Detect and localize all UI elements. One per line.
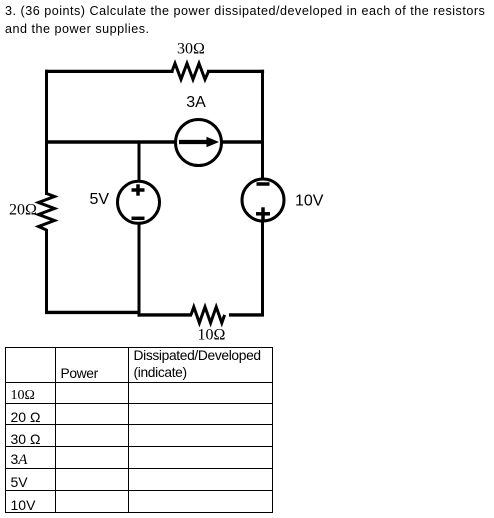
wire top rail left segment	[45, 70, 174, 73]
voltage source 5V (plus top, minus bottom)	[118, 181, 160, 223]
label 20ohm	[9, 202, 37, 219]
wire middle branch lower	[138, 222, 141, 317]
wire top rail right segment	[207, 70, 264, 73]
wire left rail lower	[45, 229, 48, 314]
resistor R 30ohm zigzag	[172, 63, 209, 79]
problem title text	[5, 2, 485, 38]
wire bottom rail left segment	[45, 311, 141, 314]
label 3A	[186, 94, 206, 111]
svg-text:10Ω: 10Ω	[198, 327, 226, 344]
svg-text:20Ω: 20Ω	[9, 202, 37, 219]
results table	[5, 347, 273, 513]
wire left rail upper	[45, 70, 48, 195]
wire middle rail right segment	[220, 140, 264, 144]
wire middle branch upper	[138, 141, 141, 183]
voltage source 10V (minus top, plus bottom)	[242, 179, 284, 221]
label 5V	[90, 191, 110, 208]
resistor 10ohm zigzag	[191, 307, 225, 323]
wire bottom rail right segment	[229, 313, 264, 316]
svg-text:10V: 10V	[295, 192, 324, 209]
svg-text:30Ω: 30Ω	[177, 41, 205, 58]
resistor 20ohm zigzag	[39, 194, 55, 231]
label 10V	[295, 192, 324, 209]
wire middle rail left segment	[45, 140, 177, 144]
wire bottom rail middle segment	[138, 313, 193, 316]
wire right rail lower	[261, 220, 264, 316]
wire right rail upper	[261, 70, 264, 180]
svg-text:3A: 3A	[186, 94, 206, 111]
current source 3A (arrow right)	[176, 120, 222, 166]
label 10ohm	[198, 327, 226, 344]
label 30ohm	[177, 41, 205, 58]
svg-text:5V: 5V	[90, 191, 110, 208]
